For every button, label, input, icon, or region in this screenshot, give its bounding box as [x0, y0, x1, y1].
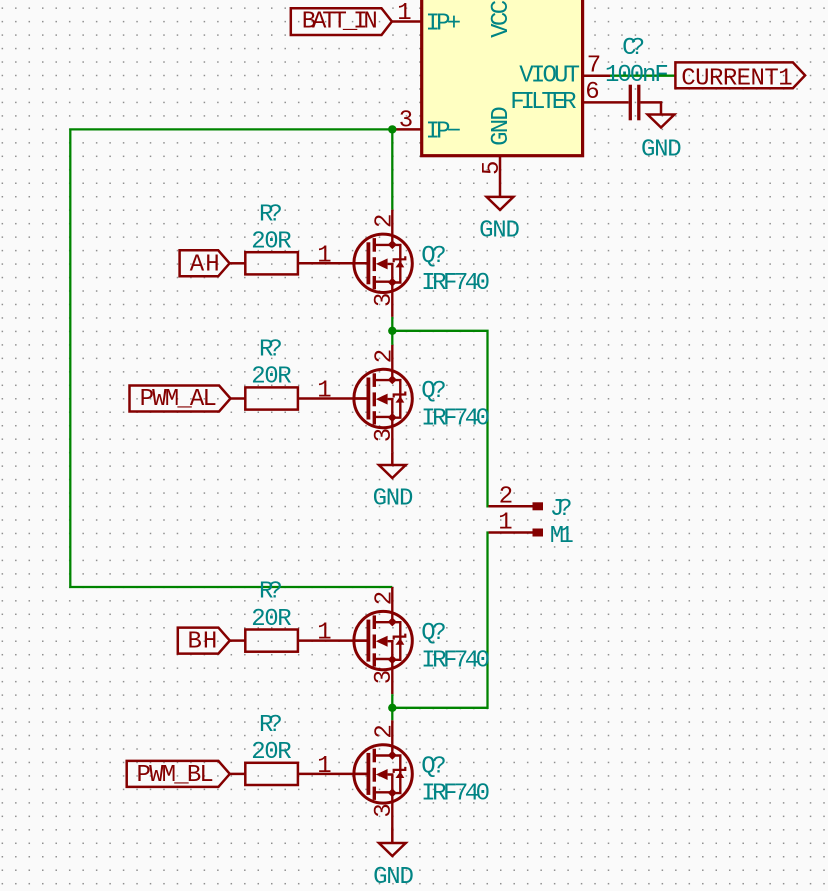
resistor R? 20R (PWM_AL) [245, 387, 298, 409]
resistor R? 20R (AH) [245, 252, 298, 274]
svg-text:R?: R? [259, 337, 283, 364]
svg-text:2: 2 [499, 483, 513, 510]
pin 3 stub (IP-) [392, 128, 421, 131]
hierarchical label AH [180, 250, 230, 276]
svg-text:BATT_IN: BATT_IN [302, 9, 378, 36]
svg-text:3: 3 [371, 803, 398, 817]
svg-text:1: 1 [498, 510, 512, 537]
long wire IP- to BH drain [70, 129, 392, 587]
resistor R? 20R (BH) [245, 630, 298, 652]
capacitor C? right plate [637, 85, 640, 121]
svg-text:20R: 20R [251, 229, 291, 256]
transistor Q? IRF740 (PWM_BL) [354, 720, 412, 827]
svg-text:R?: R? [259, 579, 283, 606]
svg-text:R?: R? [259, 201, 283, 228]
wire capacitor to ground [641, 102, 662, 113]
svg-text:FILTER: FILTER [510, 89, 576, 116]
wire junction down to Q1 drain [391, 129, 393, 209]
wire BH label to R [230, 639, 245, 642]
wire junction to connector pin 2 [392, 331, 488, 507]
svg-text:1: 1 [397, 0, 411, 27]
hierarchical label PWM_AL [130, 386, 231, 412]
connector pin 1 lead [488, 531, 533, 534]
wire Q2 source to ground [391, 452, 394, 465]
svg-text:7: 7 [587, 53, 601, 80]
wire R to gate [298, 639, 369, 642]
junction node at IP- [388, 125, 396, 133]
svg-text:PWM_BL: PWM_BL [137, 762, 214, 789]
svg-text:IP−: IP− [426, 118, 462, 145]
pin 7 stub (VIOUT) [582, 74, 610, 77]
connector pin 1 pad [533, 529, 544, 537]
svg-text:GND: GND [373, 864, 414, 891]
svg-text:PWM_AL: PWM_AL [140, 386, 217, 413]
svg-text:3: 3 [371, 428, 398, 442]
wire PWM_BL label to R [230, 773, 245, 776]
svg-text:20R: 20R [251, 364, 291, 391]
svg-text:IRF740: IRF740 [421, 405, 490, 432]
hierarchical label BH [178, 628, 230, 654]
wire R to gate [298, 773, 369, 776]
svg-text:GND: GND [373, 486, 414, 513]
ground symbol at capacitor [648, 115, 675, 128]
wire Q4 source to ground [391, 828, 394, 843]
svg-text:R?: R? [259, 712, 283, 739]
svg-text:J?: J? [550, 496, 573, 523]
svg-text:1: 1 [317, 620, 331, 647]
svg-text:CURRENT1: CURRENT1 [681, 66, 792, 93]
wire AH label to R [230, 262, 246, 265]
svg-text:Q?: Q? [421, 753, 446, 780]
wire PWM_AL label to R [231, 397, 246, 400]
svg-text:1: 1 [317, 378, 331, 405]
svg-text:3: 3 [399, 108, 413, 135]
svg-text:VCC: VCC [488, 0, 515, 38]
svg-text:6: 6 [585, 79, 599, 106]
svg-text:M1: M1 [550, 523, 574, 550]
pin 5 stub (GND) [499, 156, 502, 197]
svg-text:3: 3 [371, 293, 398, 307]
svg-text:C?: C? [622, 35, 645, 62]
IC U? current sensor body [422, 0, 583, 156]
junction node between Q1 and Q2 [388, 327, 396, 335]
svg-text:2: 2 [372, 349, 399, 363]
wire connector pin 1 down to junction [392, 533, 488, 708]
hierarchical label BATT_IN [291, 8, 392, 35]
svg-text:2: 2 [372, 591, 399, 605]
svg-text:2: 2 [372, 724, 399, 738]
ground symbol below Q4 [379, 843, 406, 856]
svg-text:GND: GND [479, 217, 520, 244]
transistor Q? IRF740 (AH) [354, 210, 412, 317]
svg-text:GND: GND [641, 136, 682, 163]
junction node between Q3 and Q4 [388, 704, 396, 712]
hierarchical label PWM_BL [127, 761, 230, 787]
wire R to gate [298, 262, 369, 265]
svg-text:IRF740: IRF740 [421, 270, 490, 297]
ground symbol below Q2 [379, 465, 406, 478]
svg-text:1: 1 [317, 753, 331, 780]
svg-text:Q?: Q? [421, 243, 446, 270]
svg-text:3: 3 [371, 670, 398, 684]
svg-text:2: 2 [372, 214, 399, 228]
pin 6 stub (FILTER) [582, 101, 629, 104]
wire R to gate [298, 397, 369, 400]
pin 1 stub (IP+) [392, 20, 422, 23]
wire Q1 source to junction [391, 317, 393, 345]
svg-text:IRF740: IRF740 [421, 781, 490, 808]
transistor Q? IRF740 (BH) [354, 587, 412, 694]
wire Q3 source to junction [391, 694, 393, 720]
svg-text:100nF: 100nF [605, 62, 669, 89]
capacitor C? left plate [629, 85, 632, 121]
connector pin 2 lead [488, 505, 533, 508]
svg-text:IRF740: IRF740 [421, 647, 490, 674]
svg-text:VIOUT: VIOUT [519, 62, 580, 89]
svg-text:BH: BH [188, 629, 218, 656]
svg-text:Q?: Q? [421, 620, 446, 647]
connector pin 2 pad [533, 502, 544, 510]
svg-text:AH: AH [190, 251, 220, 278]
svg-text:5: 5 [479, 161, 506, 175]
transistor Q? IRF740 (PWM_AL) [354, 345, 412, 452]
resistor R? 20R (PWM_BL) [245, 763, 298, 785]
svg-text:20R: 20R [251, 739, 291, 766]
svg-text:IP+: IP+ [426, 11, 462, 38]
svg-text:Q?: Q? [421, 378, 446, 405]
wire pin7 to CURRENT1 [610, 75, 675, 77]
svg-text:20R: 20R [251, 606, 291, 633]
ground symbol below pin 5 [487, 197, 514, 210]
svg-text:1: 1 [317, 242, 331, 269]
hierarchical label CURRENT1 [675, 62, 805, 88]
